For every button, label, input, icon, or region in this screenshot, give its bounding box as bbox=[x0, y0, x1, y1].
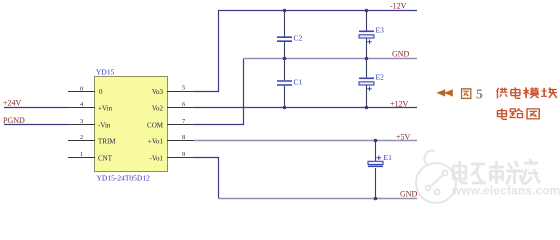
svg-text:2: 2 bbox=[80, 134, 83, 141]
svg-text:+5V: +5V bbox=[396, 132, 411, 141]
svg-text:TRIM: TRIM bbox=[98, 137, 116, 145]
svg-text:+24V: +24V bbox=[3, 98, 22, 107]
svg-text:E1: E1 bbox=[384, 153, 393, 162]
svg-text:PGND: PGND bbox=[3, 116, 25, 125]
svg-text:E2: E2 bbox=[376, 72, 385, 81]
svg-text:0: 0 bbox=[99, 88, 103, 96]
svg-text:-12V: -12V bbox=[390, 2, 407, 11]
svg-text:www.elecfans.com: www.elecfans.com bbox=[451, 184, 560, 198]
svg-text:GND: GND bbox=[400, 189, 418, 198]
svg-text:8: 8 bbox=[182, 134, 185, 141]
svg-text:CNT: CNT bbox=[98, 154, 113, 162]
svg-text:YD15: YD15 bbox=[96, 67, 115, 76]
svg-text:COM: COM bbox=[147, 121, 164, 129]
svg-text:Vo2: Vo2 bbox=[152, 104, 164, 112]
svg-text:+Vo1: +Vo1 bbox=[148, 137, 164, 145]
svg-text:Vo3: Vo3 bbox=[152, 88, 164, 96]
svg-text:5: 5 bbox=[476, 86, 483, 101]
svg-text:+Vin: +Vin bbox=[98, 104, 113, 112]
svg-text:3: 3 bbox=[80, 118, 83, 125]
svg-text:E3: E3 bbox=[376, 25, 385, 34]
svg-text:GND: GND bbox=[392, 50, 410, 59]
svg-text:9: 9 bbox=[182, 151, 185, 158]
svg-text:-Vin: -Vin bbox=[98, 121, 111, 129]
svg-text:5: 5 bbox=[182, 85, 185, 92]
svg-text:C2: C2 bbox=[294, 34, 303, 43]
svg-text:-Vo1: -Vo1 bbox=[150, 154, 164, 162]
svg-text:0: 0 bbox=[80, 86, 83, 93]
svg-text:+12V: +12V bbox=[390, 100, 409, 109]
svg-text:YD15-24T05D12: YD15-24T05D12 bbox=[97, 174, 151, 183]
svg-text:C1: C1 bbox=[294, 77, 303, 86]
svg-text:1: 1 bbox=[80, 151, 83, 158]
